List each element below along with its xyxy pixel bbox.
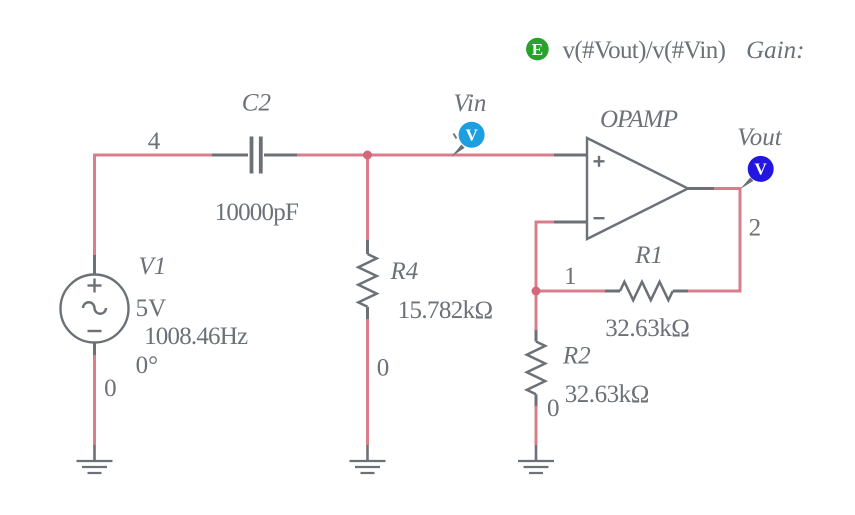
ground (V1): [77, 445, 113, 473]
svg-text:C2: C2: [242, 89, 271, 116]
svg-text:Gain:: Gain:: [746, 37, 804, 64]
svg-text:5V: 5V: [136, 295, 167, 322]
ground (R2): [518, 445, 554, 473]
svg-text:R4: R4: [390, 258, 419, 285]
svg-text:32.63kΩ: 32.63kΩ: [565, 381, 650, 408]
wire R2 bottom to ground: [535, 406, 538, 445]
wire R1 right to output (net 2): [688, 189, 740, 292]
svg-text:1008.46Hz: 1008.46Hz: [144, 323, 248, 350]
svg-text:32.63kΩ: 32.63kΩ: [605, 315, 690, 342]
wire node1 to R2: [535, 291, 538, 330]
wire V1 top to capacitor (net 4): [95, 155, 213, 255]
svg-text:Vin: Vin: [454, 90, 487, 117]
measurement badge E: [526, 38, 549, 61]
svg-text:15.782kΩ: 15.782kΩ: [398, 297, 494, 324]
ground (R4): [350, 445, 386, 473]
resistor R1: [605, 282, 688, 300]
svg-text:0: 0: [104, 375, 117, 402]
svg-text:E: E: [532, 40, 543, 59]
capacitor C2: [212, 137, 297, 174]
wire R4 bottom to ground: [366, 319, 369, 445]
svg-text:V: V: [755, 159, 768, 178]
svg-text:R1: R1: [634, 242, 663, 269]
resistor R2: [527, 330, 545, 406]
svg-text:OPAMP: OPAMP: [600, 106, 678, 133]
svg-text:R2: R2: [562, 343, 591, 370]
junction node 1: [532, 287, 541, 296]
probe Vin: [451, 122, 484, 157]
svg-text:V1: V1: [139, 253, 167, 280]
wire junction to R4: [366, 155, 369, 240]
resistor R4: [358, 240, 376, 319]
op-amp U1 (OPAMP): [554, 138, 714, 239]
wire node1 to R1 left: [536, 290, 605, 293]
svg-text:v(#Vout)/v(#Vin): v(#Vout)/v(#Vin): [563, 37, 726, 64]
svg-text:1: 1: [564, 263, 577, 290]
svg-text:4: 4: [148, 128, 161, 155]
wire capacitor to opamp + (net Vin): [297, 154, 554, 157]
wire opamp minus feedback: [536, 222, 554, 291]
svg-text:10000pF: 10000pF: [215, 199, 299, 226]
voltage source V1: [61, 255, 129, 355]
svg-text:0: 0: [547, 395, 560, 422]
svg-text:V: V: [465, 125, 478, 144]
probe Vout: [740, 156, 773, 189]
wire V1 bottom to ground: [93, 354, 96, 445]
svg-text:Vout: Vout: [737, 124, 783, 151]
svg-text:2: 2: [749, 214, 762, 241]
junction node Vin: [363, 151, 372, 160]
svg-text:0: 0: [377, 354, 390, 381]
svg-text:0°: 0°: [136, 352, 159, 379]
